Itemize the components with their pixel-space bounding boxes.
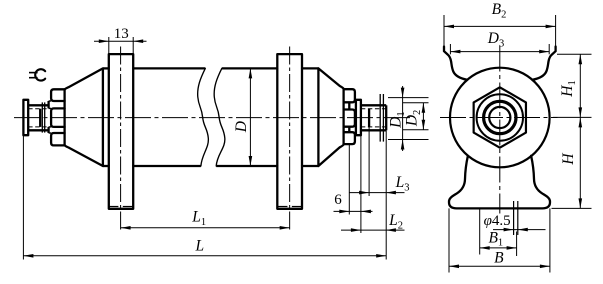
svg-text:6: 6	[334, 192, 342, 208]
svg-text:H: H	[560, 153, 577, 166]
svg-text:φ4.5: φ4.5	[484, 213, 511, 229]
svg-text:D: D	[233, 121, 250, 133]
svg-text:13: 13	[114, 26, 129, 42]
svg-text:L: L	[194, 238, 204, 255]
svg-text:B: B	[494, 249, 504, 266]
